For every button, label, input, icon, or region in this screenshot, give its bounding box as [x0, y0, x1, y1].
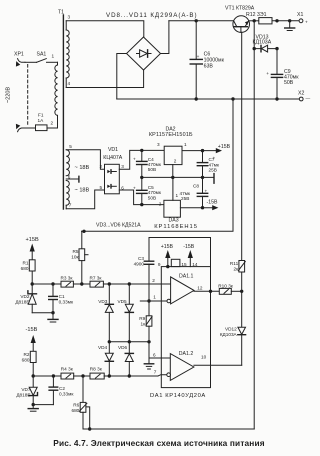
svg-text:R1: R1	[23, 261, 29, 266]
wire DA3 output	[180, 207, 212, 209]
svg-text:R9: R9	[139, 316, 145, 321]
svg-text:+15В: +15В	[26, 237, 39, 243]
switch SA1	[25, 52, 58, 63]
wire pin7 with inverting circle	[158, 373, 170, 377]
capacitor C2 0.33uF	[49, 376, 74, 405]
wire DA2 output	[182, 150, 216, 152]
svg-text:R2: R2	[24, 352, 30, 357]
svg-text:12: 12	[197, 285, 203, 290]
op-amp package DA1 box	[161, 267, 210, 388]
svg-text:C3: C3	[138, 256, 144, 261]
connector XP1	[14, 52, 25, 132]
svg-text:DA1.2: DA1.2	[179, 351, 194, 357]
node VD13 left	[253, 47, 256, 50]
node reference lower	[32, 374, 35, 377]
svg-text:КР1168ЕН15: КР1168ЕН15	[154, 224, 198, 230]
wire feedback top	[149, 238, 211, 292]
svg-text:X1: X1	[297, 12, 303, 18]
transformer T1 core	[62, 15, 64, 209]
wire DA1.2 output	[194, 364, 242, 366]
diode VD12	[238, 291, 246, 365]
svg-text:VD5: VD5	[118, 299, 128, 304]
ground symbol at R9	[144, 364, 153, 369]
ground symbol under C1	[48, 313, 58, 322]
diode VD13 KD103A label	[253, 34, 272, 45]
node C1 top	[51, 282, 54, 285]
svg-text:Д818Е: Д818Е	[16, 392, 30, 397]
diode VD13	[254, 45, 277, 52]
diode VD12 KD103A label	[220, 326, 238, 337]
resistor R1 680	[21, 260, 35, 284]
svg-text:0,33мк: 0,33мк	[59, 299, 74, 304]
ground symbol under VD7	[28, 405, 38, 412]
svg-text:1: 1	[52, 54, 55, 59]
net -15V output arrow	[207, 199, 219, 210]
svg-text:+: +	[305, 19, 308, 24]
svg-text:VD3: VD3	[98, 299, 108, 304]
node R6 top	[81, 374, 84, 377]
wire T1 pin5 to VD1 pin2	[66, 150, 104, 169]
svg-text:3: 3	[157, 142, 160, 147]
node VD13 right	[275, 47, 278, 50]
svg-text:SA1: SA1	[37, 52, 47, 58]
zener VD2	[28, 284, 37, 313]
wire pin1 with inverting circle	[140, 299, 170, 303]
diode VD4	[98, 342, 113, 376]
svg-text:50В: 50В	[148, 167, 156, 172]
svg-text:25В: 25В	[181, 196, 189, 201]
regulator DA3 KR1168EN15	[164, 177, 181, 217]
capacitor C1 0.33uF	[49, 284, 74, 313]
wire VT1 emitter row	[249, 20, 259, 22]
svg-text:C8: C8	[193, 183, 199, 188]
svg-text:VD8...VD11 КД299А(А-В): VD8...VD11 КД299А(А-В)	[106, 12, 198, 19]
svg-text:R11: R11	[230, 261, 239, 266]
svg-text:2: 2	[174, 159, 177, 164]
svg-text:5: 5	[69, 144, 72, 149]
diode VD3	[98, 284, 113, 342]
resistor R10 3k	[218, 283, 241, 294]
svg-text:3: 3	[121, 164, 124, 169]
regulator DA3 label	[154, 218, 198, 231]
wire emitter column to bottom rail	[253, 21, 255, 429]
wire T1 tap6 stub	[66, 176, 79, 182]
rectifier VD1 KC407A label	[103, 147, 123, 161]
svg-text:X2: X2	[298, 91, 304, 97]
wire T1 pin4 to bridge bottom	[66, 70, 143, 88]
svg-text:50В: 50В	[148, 195, 156, 200]
node feedback tap	[209, 290, 212, 293]
svg-text:50В: 50В	[284, 80, 294, 86]
svg-text:VT1 КТ829А: VT1 КТ829А	[225, 6, 255, 12]
svg-text:КР1157ЕН1501Б: КР1157ЕН1501Б	[149, 132, 193, 138]
node C5 bottom	[140, 203, 143, 206]
regulator DA2	[164, 146, 182, 177]
wire T1 pin7 to VD1 pin5	[66, 190, 104, 209]
svg-text:63В: 63В	[204, 64, 214, 70]
svg-text:10: 10	[201, 355, 207, 360]
node VD5 top	[128, 282, 131, 285]
capacitor C5 470uF 50V	[133, 177, 162, 204]
rectifier VD1	[105, 164, 120, 194]
svg-text:15: 15	[181, 262, 187, 267]
svg-text:—: —	[306, 96, 311, 101]
capacitor C8 47uF 25V	[180, 177, 208, 207]
svg-text:C1: C1	[59, 294, 65, 299]
capacitor C9 470uF 50V	[266, 49, 299, 99]
capacitor C6 10000uF 63V	[190, 21, 224, 99]
transformer T1 secondary winding pins 3-4	[66, 15, 70, 88]
svg-text:R5: R5	[73, 249, 79, 254]
wire VD2 anode to C1 bottom	[32, 312, 53, 314]
node ground drop	[231, 97, 234, 100]
node emitter / R12 left	[253, 19, 256, 22]
svg-text:3: 3	[68, 15, 71, 20]
svg-text:VD2: VD2	[20, 294, 30, 299]
node rail C7/C8	[201, 176, 204, 179]
node rail C4/C5	[140, 176, 143, 179]
svg-text:1: 1	[153, 294, 156, 299]
svg-text:КЦ407А: КЦ407А	[103, 155, 123, 161]
node R5 bottom	[80, 282, 83, 285]
resistor R12	[259, 18, 299, 24]
svg-text:0,33мк: 0,33мк	[59, 392, 74, 397]
svg-text:-15В: -15В	[26, 327, 38, 333]
svg-text:+: +	[205, 188, 208, 193]
wire middle common rail	[142, 174, 214, 184]
svg-text:680: 680	[22, 358, 30, 363]
svg-text:14: 14	[192, 262, 198, 267]
fuse F1 1A	[25, 113, 58, 131]
node VD4 bottom	[108, 374, 111, 377]
wire VT1 base column	[241, 32, 243, 260]
net -15V op-amp supply	[183, 244, 194, 266]
node VD6 bottom	[128, 374, 131, 377]
wire VD1 pin3 to DA2 input	[119, 150, 164, 169]
wire lower common to ground bus	[82, 99, 234, 231]
svg-text:VD4: VD4	[98, 345, 108, 350]
svg-text:6: 6	[153, 353, 156, 358]
node base drive	[240, 290, 243, 293]
wire top positive rail	[169, 20, 234, 22]
node R6 wiper on rail	[88, 427, 91, 430]
node C6 top	[195, 19, 198, 22]
op-amp DA1.1	[171, 273, 194, 304]
resistor R9 1k	[139, 301, 152, 363]
wire T1 pin3 to bridge top	[66, 21, 144, 37]
svg-text:Д818Е: Д818Е	[15, 299, 29, 304]
svg-text:25В: 25В	[209, 168, 217, 173]
svg-text:DA3: DA3	[169, 218, 179, 224]
svg-text:5: 5	[100, 185, 103, 190]
svg-text:9: 9	[158, 262, 161, 267]
capacitor C7 47uF 25V	[197, 151, 220, 178]
resistor R11 2k	[230, 261, 245, 292]
svg-text:+15В: +15В	[218, 144, 231, 150]
svg-text:DA1.1: DA1.1	[179, 273, 194, 279]
svg-text:+: +	[133, 185, 136, 190]
net +15V supply upper-left	[26, 237, 39, 260]
svg-text:-15В: -15В	[207, 199, 218, 205]
svg-text:2: 2	[100, 164, 103, 169]
node VD7 anode	[32, 403, 35, 406]
node VD5/VD6 mid	[128, 340, 131, 343]
resistor R3 3k	[61, 275, 91, 287]
svg-text:+: +	[266, 71, 269, 76]
node X1 ground tap	[288, 19, 291, 22]
trimmer R6 680	[71, 376, 89, 429]
potentiometer R5 10k	[71, 231, 88, 284]
svg-text:R10 3к: R10 3к	[218, 283, 234, 288]
resistor R2 680	[22, 351, 36, 376]
svg-text:+: +	[133, 157, 136, 162]
node reference upper	[31, 282, 34, 285]
transistor VT1	[233, 16, 250, 33]
terminal X1	[297, 12, 308, 24]
svg-text:R7 3к: R7 3к	[90, 275, 103, 280]
node C2 top	[52, 374, 55, 377]
transformer T1 secondary winding pins 5-6-7	[66, 144, 72, 209]
zener VD2 D818E label	[15, 294, 30, 305]
wire C2 bottom to VD7	[33, 404, 53, 406]
wire lower reference row	[33, 375, 61, 377]
wire ground bus	[117, 98, 299, 100]
node C9 bottom	[275, 97, 278, 100]
svg-text:2: 2	[159, 202, 162, 207]
transformer T1 primary winding pins 1-2	[51, 54, 58, 129]
svg-text:R4 3к: R4 3к	[61, 367, 74, 372]
node R5 top	[82, 230, 85, 233]
wire diode mid row	[109, 341, 149, 343]
op-amp DA1.2	[170, 351, 194, 380]
svg-text:VD3...VD6 КД521А: VD3...VD6 КД521А	[96, 222, 141, 228]
net +15V op-amp supply	[161, 244, 174, 268]
svg-text:КД103А: КД103А	[220, 332, 238, 337]
wire upper reference row	[32, 283, 61, 285]
node C6 bottom	[195, 97, 198, 100]
svg-text:4900: 4900	[134, 262, 145, 267]
node C1 bottom	[51, 311, 54, 314]
node VD3 top	[108, 282, 111, 285]
zener VD7	[29, 376, 38, 405]
capacitor C4 470uF 50V	[133, 150, 162, 177]
svg-text:~ 18В: ~ 18В	[75, 165, 90, 171]
svg-text:XP1: XP1	[14, 52, 24, 58]
svg-text:R8 3к: R8 3к	[90, 367, 103, 372]
svg-text:+15В: +15В	[161, 244, 174, 250]
svg-text:VD12: VD12	[225, 326, 237, 331]
regulator DA2 KR1157EN1501B label	[149, 127, 193, 139]
resistor R7 3k	[90, 275, 171, 287]
node C3 / pin1	[147, 299, 150, 302]
resistor R8 3k	[90, 367, 158, 380]
diode bridge VD8-VD11	[127, 37, 161, 70]
wire VD1 pin6 to DA3 input	[119, 190, 164, 205]
svg-text:Рис. 4.7. Электрическая схема: Рис. 4.7. Электрическая схема источника …	[53, 438, 264, 448]
svg-text:F1: F1	[38, 113, 44, 118]
svg-text:2: 2	[51, 121, 54, 126]
node R9 bottom	[147, 340, 150, 343]
svg-text:КД103А: КД103А	[253, 40, 272, 46]
resistor R4 3k	[61, 367, 90, 380]
diode VD6	[118, 342, 133, 376]
svg-text:DA1 КР140УД20А: DA1 КР140УД20А	[150, 393, 206, 399]
svg-text:C2: C2	[59, 386, 65, 391]
svg-text:4: 4	[68, 81, 71, 86]
svg-text:-15В: -15В	[183, 244, 194, 250]
node VD13/C9 column top	[275, 19, 278, 22]
svg-text:7: 7	[154, 369, 157, 374]
svg-text:~220В: ~220В	[6, 87, 12, 104]
wire bridge plus to top rail	[161, 21, 169, 54]
wire XP1 dashed link	[27, 65, 29, 127]
svg-text:680: 680	[21, 266, 29, 271]
terminal X2	[298, 91, 311, 101]
ground symbol at X1	[285, 21, 295, 31]
capacitor C3 4900	[134, 238, 154, 302]
svg-text:+: +	[197, 54, 200, 59]
node C7 top	[201, 149, 204, 152]
wire pin6 from ground stem	[149, 357, 170, 359]
svg-text:1: 1	[176, 193, 179, 198]
svg-text:VD1: VD1	[108, 147, 118, 153]
node C8 bottom	[201, 206, 204, 209]
node VD3/VD4 mid	[108, 340, 111, 343]
wire bridge minus to ground bus	[117, 54, 127, 100]
zener VD7 D818E label	[16, 387, 31, 398]
svg-text:VD6: VD6	[118, 345, 128, 350]
svg-text:+: +	[213, 156, 216, 161]
svg-text:R12 3Э1: R12 3Э1	[246, 12, 267, 18]
svg-text:10к: 10к	[71, 255, 79, 260]
node rail DA2/DA3 common	[171, 176, 174, 179]
net -15V supply lower-left	[26, 327, 38, 351]
svg-text:2: 2	[152, 278, 155, 283]
node C4 top	[140, 149, 143, 152]
net +15V output arrow	[216, 144, 231, 153]
svg-text:1А: 1А	[38, 118, 45, 123]
diode VD5	[118, 284, 134, 342]
balance pin rectangle DA1	[171, 259, 180, 266]
svg-text:~ 18В: ~ 18В	[75, 188, 90, 194]
wire DA1.1 output	[194, 290, 219, 292]
svg-text:R3 3к: R3 3к	[61, 275, 74, 280]
svg-text:R6: R6	[73, 403, 79, 408]
svg-text:1: 1	[184, 142, 187, 147]
svg-text:680: 680	[71, 408, 79, 413]
wire bottom feedback rail	[83, 428, 254, 430]
